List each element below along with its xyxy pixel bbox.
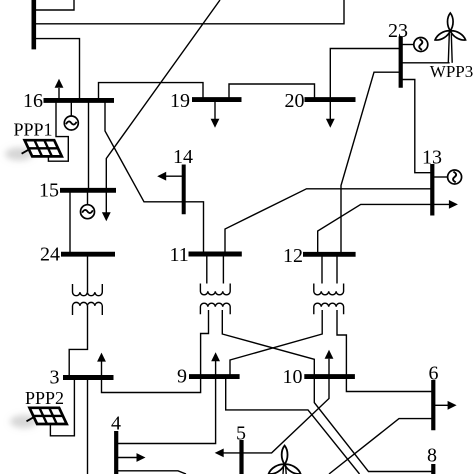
wire T12 left lead diagonal to bus 9: [230, 310, 322, 376]
generator G16 circle: [64, 116, 78, 130]
bus 5 (vertical bar): [239, 440, 243, 474]
wire bus 3 down to bottom edge: [87, 377, 89, 474]
transformer T11 lower coil: [200, 303, 230, 314]
generator G16 stub: [70, 100, 72, 116]
bus 17 (top-left vertical bus bar): [31, 0, 36, 49]
wind turbine at bus 5 pole: [283, 467, 286, 474]
solar panel PPP2: [27, 408, 67, 424]
svg-text:6: 6: [429, 362, 439, 384]
svg-text:16: 16: [23, 90, 43, 112]
transformer T12 upper coil: [314, 284, 344, 295]
wire 12-13: [318, 204, 433, 254]
bus 10: [304, 374, 355, 379]
wire diagonal line into bus 15: [106, 0, 220, 189]
wire T12 right lead down through bus 10 to bus 6: [337, 310, 433, 392]
wire from bus17 up to top edge: [35, 0, 74, 10]
load arrow bus 15: [105, 192, 107, 213]
transformer T12 lower coil: [314, 303, 344, 314]
svg-text:13: 13: [422, 146, 442, 168]
transformer T24-3 lower coil: [73, 302, 103, 315]
svg-text:8: 8: [427, 445, 437, 467]
wind turbine WPP3 pole: [448, 34, 452, 63]
load arrow bus 19: [214, 100, 216, 119]
wire 19-20: [229, 84, 315, 100]
load arrow bus 4: [116, 457, 137, 459]
bus 24: [61, 252, 115, 257]
solar panel PPP1 shadow: [5, 148, 33, 161]
wire 23-13: [401, 80, 433, 173]
bus 8 (vertical bar): [431, 464, 435, 474]
solar panel PPP2 shadow: [10, 415, 38, 428]
wire 16-14 diagonal then to bus 11: [105, 100, 204, 254]
svg-text:12: 12: [283, 245, 303, 267]
svg-text:WPP3: WPP3: [430, 62, 473, 81]
bus 14 (vertical bar): [182, 165, 186, 215]
solar panel PPP1: [22, 140, 62, 156]
wire 2-6 diagonal to bottom edge: [329, 419, 433, 474]
load arrow bus 6: [433, 404, 448, 406]
wire 4-9 with flow arrow at bus 9: [116, 361, 215, 444]
svg-text:3: 3: [50, 366, 60, 388]
wire T11 right lead diagonal to bus 10 then to bus 8: [222, 310, 433, 472]
generation arrow bus 16: [58, 88, 60, 100]
bus 13 (vertical bar): [430, 164, 434, 216]
transformer T24-3 upper coil: [73, 284, 103, 296]
svg-text:19: 19: [170, 90, 190, 112]
svg-text:PPP2: PPP2: [25, 388, 64, 408]
svg-text:14: 14: [173, 146, 193, 168]
load arrow bus 14: [166, 175, 184, 177]
wire 11-13: [225, 189, 432, 254]
generator G13 stub: [432, 176, 447, 178]
transformer T24-3 lead to bus 3: [69, 306, 87, 377]
wire 8-9: [226, 379, 360, 474]
wire bus 4 bottom line: [116, 471, 186, 474]
svg-text:11: 11: [170, 244, 189, 266]
svg-text:20: 20: [285, 90, 305, 112]
bus 9: [189, 374, 240, 379]
wire PPP1 connector to bus 16: [48, 100, 68, 161]
svg-text:5: 5: [236, 423, 246, 445]
generator G15 circle: [81, 205, 95, 219]
wire 12-23 (diagonal): [341, 72, 401, 254]
transformer T11 upper coil: [200, 284, 230, 295]
wire 16-19: [99, 83, 204, 101]
wire from bus17 down to bus 16: [35, 39, 80, 101]
bus 15: [60, 188, 116, 193]
wire T11 left lead down through bus 9 to bus 3 line: [102, 310, 209, 393]
bus 20: [305, 97, 356, 102]
transformer T11 leads from bus 11: [206, 254, 208, 284]
transformer T12 leads from bus 12: [321, 254, 323, 283]
bus 12: [303, 252, 356, 257]
bus 11: [189, 252, 242, 257]
svg-text:PPP1: PPP1: [14, 120, 53, 140]
bus 23 (vertical bar): [399, 37, 403, 88]
transformer T24-3 lead from bus 24: [87, 254, 89, 292]
wire bus23 to WPP3 turbine: [401, 62, 450, 64]
wire from bus17 long horizontal to top right: [35, 0, 344, 24]
svg-text:15: 15: [39, 180, 59, 202]
wire 5-10 with flow arrow at bus 10 and arrowhead at bus 5: [224, 359, 330, 453]
bus 4 (vertical bar): [114, 431, 118, 474]
generator G23 stub: [401, 44, 414, 46]
svg-text:24: 24: [40, 244, 60, 266]
load arrow bus 13 (through-bar line with right arrow): [432, 203, 449, 205]
wind turbine WPP3 blades: [434, 13, 467, 42]
wire 15-24: [69, 190, 71, 254]
generator G23 circle: [414, 38, 428, 52]
bus 3: [63, 375, 114, 380]
bus 16: [44, 98, 115, 103]
wire 16-15: [88, 100, 90, 190]
bus 19: [192, 97, 242, 102]
svg-text:10: 10: [283, 366, 303, 388]
bus 6 (vertical bar): [431, 380, 435, 430]
flow arrow at bus 3: [97, 353, 106, 362]
svg-text:23: 23: [388, 20, 408, 42]
generator G13 circle: [448, 170, 462, 184]
generator G15 stub: [87, 190, 89, 205]
svg-text:4: 4: [111, 413, 121, 435]
wire PPP2 connector to bus 3: [50, 377, 74, 436]
wind turbine at bus 5 blades: [267, 446, 302, 474]
load arrow bus 20: [329, 100, 331, 119]
svg-text:9: 9: [177, 366, 187, 388]
wire 20-23: [330, 49, 400, 100]
